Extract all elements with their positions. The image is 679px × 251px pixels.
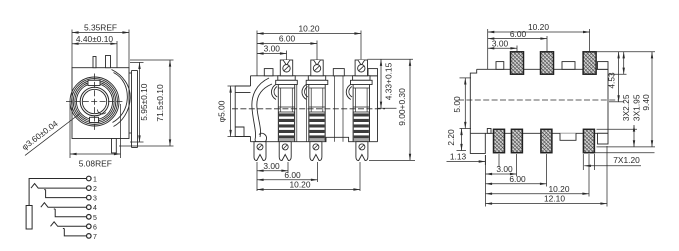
svg-text:6.00: 6.00 [279,34,296,44]
svg-text:6.00: 6.00 [509,174,526,184]
svg-text:7: 7 [93,234,97,241]
svg-text:6: 6 [93,224,97,231]
svg-text:3X2.25: 3X2.25 [621,94,631,121]
svg-text:2: 2 [93,186,97,193]
svg-text:5.08REF: 5.08REF [79,159,112,169]
svg-text:10.20: 10.20 [549,184,570,194]
svg-text:5.00: 5.00 [452,96,462,113]
svg-text:5.95±0.10: 5.95±0.10 [139,83,149,121]
svg-text:12.10: 12.10 [544,194,565,204]
svg-text:4.53: 4.53 [607,72,617,89]
svg-text:10.20: 10.20 [290,180,311,190]
svg-text:4: 4 [93,205,97,212]
svg-text:φ5.00: φ5.00 [217,100,227,122]
svg-text:9.40: 9.40 [641,94,651,111]
svg-text:6.00: 6.00 [510,29,527,39]
svg-text:5.35REF: 5.35REF [84,23,117,33]
svg-text:3.00: 3.00 [492,39,509,49]
svg-text:3X1.95: 3X1.95 [632,94,642,121]
svg-text:4.40±0.10: 4.40±0.10 [76,34,114,44]
svg-text:2.20: 2.20 [446,129,456,146]
svg-text:10.20: 10.20 [299,24,320,34]
svg-text:4.33+0.15: 4.33+0.15 [384,62,394,100]
svg-text:71.5±0.10: 71.5±0.10 [155,84,165,122]
svg-text:5: 5 [93,215,97,222]
svg-text:6.00: 6.00 [284,170,301,180]
svg-text:1.13: 1.13 [450,152,467,162]
svg-text:3.00: 3.00 [264,44,281,54]
svg-text:10.20: 10.20 [528,22,549,32]
svg-text:3.00: 3.00 [263,161,280,171]
svg-text:3.00: 3.00 [496,164,513,174]
svg-text:3: 3 [93,196,97,203]
svg-text:1: 1 [93,177,97,184]
svg-text:7X1.20: 7X1.20 [613,155,640,165]
svg-text:9.00+0.30: 9.00+0.30 [397,88,407,126]
